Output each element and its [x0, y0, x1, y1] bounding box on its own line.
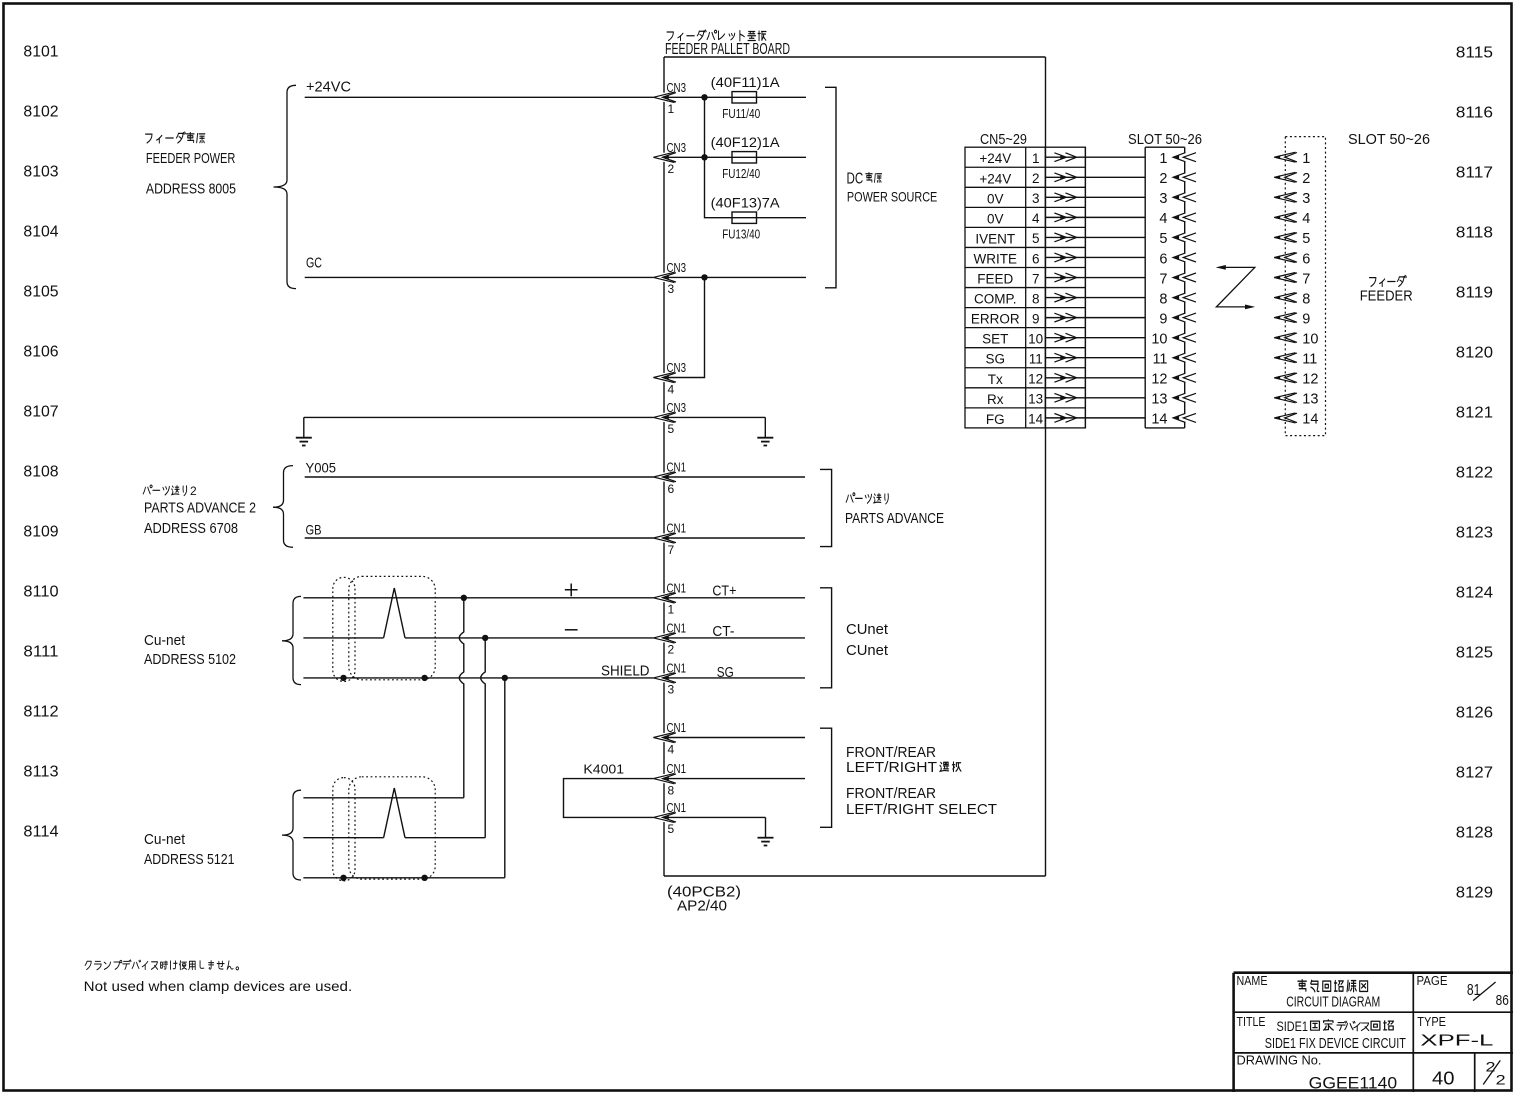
svg-text:ERROR: ERROR — [971, 312, 1020, 327]
svg-text:SLOT 50~26: SLOT 50~26 — [1348, 132, 1430, 148]
svg-text:8: 8 — [668, 783, 675, 797]
svg-text:FEEDER PALLET BOARD: FEEDER PALLET BOARD — [665, 41, 790, 58]
svg-text:ADDRESS 5102: ADDRESS 5102 — [144, 651, 236, 668]
wire CN1-5 right to ground — [664, 816, 766, 818]
svg-text:5: 5 — [1302, 231, 1310, 247]
svg-text:DRAWING No.: DRAWING No. — [1237, 1053, 1322, 1067]
svg-text:2: 2 — [1159, 171, 1167, 187]
connector SLOT feeder pin 3 — [1274, 191, 1310, 207]
connector CN1 pin 3 — [653, 660, 686, 696]
svg-text:CN3: CN3 — [667, 400, 687, 415]
connector SLOT feeder pin 14 — [1274, 412, 1318, 428]
connector CN5~29 pin 10 SET — [982, 331, 1043, 346]
wire CN3-1 to fuse FU11 — [664, 96, 806, 98]
connector SLOT feeder pin 8 — [1274, 291, 1310, 307]
svg-text:SIDE1 FIX DEVICE CIRCUIT: SIDE1 FIX DEVICE CIRCUIT — [1265, 1035, 1406, 1052]
svg-text:CUnet: CUnet — [846, 642, 889, 659]
svg-text:Cu-net: Cu-net — [144, 632, 186, 649]
svg-text:8105: 8105 — [23, 284, 58, 301]
connector CN1 pin 7 — [653, 521, 686, 557]
label + (CT+) — [565, 584, 578, 597]
wire CN5~29 pin 8 to SLOT — [1045, 297, 1145, 299]
svg-text:9: 9 — [1159, 311, 1167, 327]
label feeder power (JP) — [146, 134, 152, 143]
connector SLOT pin 1 — [1159, 151, 1196, 167]
svg-text:14: 14 — [1302, 412, 1318, 428]
twisted pair TP1 twist — [384, 588, 405, 638]
svg-text:8104: 8104 — [23, 224, 58, 241]
connector CN5~29 pin 13 Rx — [987, 392, 1043, 407]
svg-text:8119: 8119 — [1456, 285, 1493, 302]
svg-text:4: 4 — [1302, 211, 1310, 227]
connector CN1 pin 8 — [653, 761, 686, 797]
svg-text:CN5~29: CN5~29 — [980, 132, 1027, 148]
title block name (JP) — [1298, 980, 1306, 991]
wire CN3-2 to fuse FU12 — [664, 156, 806, 158]
svg-text:8103: 8103 — [23, 164, 58, 181]
svg-text:PARTS ADVANCE 2: PARTS ADVANCE 2 — [144, 501, 256, 517]
wire TP2 wire2 segment A — [303, 837, 383, 839]
svg-text:4: 4 — [1032, 211, 1040, 226]
wire CN1-4 right — [664, 737, 805, 739]
wire TP2 shield — [303, 877, 504, 879]
connector CN3 pin 3 — [653, 260, 686, 296]
svg-text:POWER SOURCE: POWER SOURCE — [847, 189, 937, 205]
svg-text:14: 14 — [1028, 412, 1044, 427]
svg-text:6: 6 — [1302, 251, 1310, 267]
node junction V1 top — [461, 595, 467, 601]
wire V2 vertical — [481, 638, 486, 838]
wire CN5~29 pin 3 to SLOT — [1045, 196, 1145, 198]
svg-text:6: 6 — [1159, 251, 1167, 267]
twisted pair TP2 cable outline — [349, 777, 435, 879]
svg-text:3: 3 — [668, 683, 675, 697]
svg-text:4: 4 — [668, 742, 675, 756]
connector CN5~29 pin 3 0V — [987, 191, 1039, 206]
svg-text:12: 12 — [1151, 372, 1167, 388]
svg-text:40: 40 — [1432, 1069, 1455, 1089]
svg-text:1: 1 — [668, 603, 675, 617]
svg-text:CN1: CN1 — [667, 580, 687, 595]
svg-text:TYPE: TYPE — [1417, 1015, 1446, 1029]
connector SLOT pin 2 — [1159, 171, 1196, 187]
wire CN5~29 pin 9 to SLOT — [1045, 317, 1145, 319]
connector CN3 pin 2 — [653, 140, 686, 176]
svg-text:8127: 8127 — [1456, 765, 1493, 782]
svg-text:NAME: NAME — [1237, 974, 1268, 988]
svg-text:+24VC: +24VC — [306, 78, 351, 95]
svg-text:2: 2 — [1486, 1058, 1496, 1074]
svg-text:2: 2 — [668, 643, 675, 657]
connector SLOT feeder pin 7 — [1274, 271, 1310, 287]
svg-text:FEED: FEED — [977, 272, 1013, 287]
wire CN5~29 pin 10 to SLOT — [1045, 337, 1145, 339]
svg-text:8118: 8118 — [1456, 225, 1493, 242]
svg-text:0V: 0V — [987, 211, 1004, 226]
svg-text:CN1: CN1 — [667, 660, 687, 675]
connector SLOT feeder pin 13 — [1274, 392, 1318, 408]
fuse FU12/40 — [732, 152, 757, 163]
wire GB to CN1-7 — [305, 537, 654, 539]
cable link arrow — [1216, 267, 1254, 307]
twisted pair TP1 cable outline — [349, 576, 435, 679]
svg-text:10: 10 — [1151, 331, 1167, 347]
connector SLOT pin 9 — [1159, 311, 1196, 327]
svg-text:11: 11 — [1152, 352, 1167, 368]
connector SLOT feeder pin 12 — [1274, 372, 1318, 388]
wire J2 to fuse FU13 branch — [705, 157, 807, 217]
wire CT- left segment B — [405, 637, 653, 639]
svg-text:5: 5 — [1159, 231, 1167, 247]
svg-text:1: 1 — [668, 102, 675, 116]
wire J3 to CN3-4 — [664, 277, 705, 377]
svg-text:8113: 8113 — [23, 764, 58, 781]
fuse FU11/40 — [732, 92, 757, 103]
svg-text:2: 2 — [1032, 171, 1040, 186]
connector SLOT pin 6 — [1159, 251, 1196, 267]
wire CN5~29 pin 6 to SLOT — [1045, 256, 1145, 258]
svg-text:FRONT/REAR: FRONT/REAR — [846, 745, 936, 761]
svg-text:Y005: Y005 — [306, 460, 337, 476]
svg-text:PARTS ADVANCE: PARTS ADVANCE — [845, 511, 944, 527]
connector CN5~29 pin 7 FEED — [977, 271, 1039, 286]
node TP2 shield dot B — [421, 875, 427, 881]
wire CN5~29 pin 13 to SLOT — [1045, 397, 1145, 399]
svg-text:+24V: +24V — [979, 171, 1011, 186]
svg-text:SHIELD: SHIELD — [601, 663, 650, 680]
svg-text:ADDRESS 5121: ADDRESS 5121 — [144, 851, 235, 868]
svg-text:1: 1 — [1032, 151, 1040, 166]
bracket front/rear select — [820, 728, 832, 827]
node TP2 shield dot A — [340, 875, 346, 881]
board AP2/40 outline — [664, 56, 1046, 58]
connector CN1 pin 1 — [653, 580, 686, 616]
connector SLOT pin 12 — [1151, 372, 1196, 388]
connector CN1 pin 4 — [653, 720, 686, 756]
connector SLOT pin 10 — [1151, 331, 1196, 347]
svg-text:14: 14 — [1151, 412, 1167, 428]
connector CN5~29 pin 5 IVENT — [975, 231, 1039, 246]
svg-text:8: 8 — [1302, 291, 1310, 307]
connector SLOT pin 11 — [1152, 352, 1196, 368]
connector CN5~29 number column line — [1044, 147, 1046, 428]
wire left ground to CN3-5 — [304, 416, 654, 418]
svg-text:5: 5 — [1032, 231, 1040, 246]
connector SLOT feeder pin 4 — [1274, 211, 1310, 227]
bracket CUnet — [820, 588, 832, 688]
wire V1 vertical — [459, 598, 464, 798]
connector SLOT feeder pin 11 — [1274, 352, 1317, 368]
svg-text:8112: 8112 — [23, 704, 58, 721]
node TP1 shield dot A — [340, 675, 346, 681]
wire CN5~29 pin 4 to SLOT — [1045, 216, 1145, 218]
svg-text:ADDRESS 6708: ADDRESS 6708 — [144, 521, 238, 537]
twisted pair TP1 shield pill — [333, 577, 355, 681]
wire CN5~29 pin 7 to SLOT — [1045, 277, 1145, 279]
svg-text:FEEDER: FEEDER — [1360, 287, 1413, 304]
node junction J1 — [701, 94, 707, 100]
wire CN1-2 right — [664, 637, 805, 639]
svg-text:FRONT/REAR: FRONT/REAR — [846, 786, 936, 802]
connector SLOT pin 14 — [1151, 412, 1196, 428]
svg-text:8122: 8122 — [1456, 465, 1493, 482]
svg-text:8101: 8101 — [23, 44, 58, 61]
svg-text:8102: 8102 — [23, 104, 58, 121]
svg-text:CN1: CN1 — [667, 800, 687, 815]
connector CN5~29 chevron column edge — [1084, 147, 1086, 428]
svg-text:CN3: CN3 — [667, 260, 687, 275]
svg-text:8111: 8111 — [23, 644, 58, 661]
svg-text:SG: SG — [986, 352, 1006, 367]
connector SLOT feeder pin 5 — [1274, 231, 1310, 247]
connector SLOT feeder pin 10 — [1274, 331, 1318, 347]
connector CN5~29 pin 14 FG — [986, 412, 1044, 427]
ground GND2 — [764, 417, 766, 437]
svg-text:8126: 8126 — [1456, 705, 1493, 722]
twisted pair TP2 shield pill — [333, 778, 355, 881]
ground GND3 — [765, 817, 767, 837]
label - (CT-) — [565, 629, 578, 631]
wire CN5~29 pin 14 to SLOT — [1045, 417, 1145, 419]
svg-text:13: 13 — [1151, 392, 1167, 408]
svg-text:9: 9 — [1302, 311, 1310, 327]
svg-text:FEEDER POWER: FEEDER POWER — [146, 150, 236, 167]
svg-text:7: 7 — [1302, 271, 1310, 287]
svg-text:8106: 8106 — [23, 344, 58, 361]
svg-text:4: 4 — [1159, 211, 1167, 227]
connector CN5~29 pin 6 WRITE — [974, 251, 1040, 266]
bracket parts advance — [820, 469, 832, 546]
wire J1 to J2 — [704, 97, 706, 157]
svg-text:ADDRESS 8005: ADDRESS 8005 — [146, 180, 236, 197]
wire CT+ left — [303, 597, 653, 599]
svg-text:13: 13 — [1302, 392, 1318, 408]
wire CN5~29 pin 11 to SLOT — [1045, 357, 1145, 359]
wire CN5~29 pin 5 to SLOT — [1045, 236, 1145, 238]
svg-text:8116: 8116 — [1456, 105, 1493, 122]
svg-text:DC: DC — [847, 171, 864, 188]
svg-text:Cu-net: Cu-net — [144, 831, 186, 848]
connector SLOT feeder dashed box — [1285, 137, 1325, 436]
svg-text:8123: 8123 — [1456, 525, 1493, 542]
svg-text:SIDE1: SIDE1 — [1277, 1019, 1309, 1034]
node TP1 shield dot B — [421, 675, 427, 681]
svg-text:3: 3 — [1302, 191, 1310, 207]
wire Y005 to CN1-6 — [305, 476, 654, 478]
svg-text:8125: 8125 — [1456, 645, 1493, 662]
svg-text:8108: 8108 — [23, 464, 58, 481]
svg-text:9: 9 — [1032, 311, 1040, 326]
svg-text:8121: 8121 — [1456, 405, 1493, 422]
brace cu-net 5121 group — [282, 790, 301, 880]
connector CN3 pin 4 — [653, 360, 686, 396]
svg-text:GGEE1140: GGEE1140 — [1309, 1073, 1397, 1092]
svg-text:CN1: CN1 — [667, 620, 687, 635]
svg-text:7: 7 — [668, 543, 675, 557]
svg-text:3: 3 — [668, 282, 675, 296]
svg-text:8: 8 — [1159, 291, 1167, 307]
svg-text:AP2/40: AP2/40 — [677, 898, 727, 915]
connector CN5~29 pin 9 ERROR — [971, 311, 1040, 326]
svg-text:SET: SET — [982, 332, 1008, 347]
connector CN5~29 pin 11 SG — [986, 352, 1043, 367]
svg-text:6: 6 — [1032, 251, 1040, 266]
svg-text:CN3: CN3 — [667, 80, 687, 95]
board label feeder pallet board (JP) — [667, 32, 673, 41]
svg-text:6: 6 — [668, 482, 675, 496]
svg-text:8129: 8129 — [1456, 885, 1493, 902]
svg-text:Tx: Tx — [988, 372, 1003, 387]
connector SLOT pin 8 — [1159, 291, 1196, 307]
svg-text:K4001: K4001 — [583, 762, 624, 776]
label parts advance (JP) — [846, 493, 855, 502]
wire V3 vertical — [504, 678, 506, 878]
svg-text:SLOT 50~26: SLOT 50~26 — [1128, 132, 1202, 148]
svg-text:COMP.: COMP. — [974, 292, 1017, 307]
wire CT- left segment A — [303, 637, 383, 639]
connector SLOT 50~26 box — [1145, 146, 1185, 148]
svg-text:5: 5 — [668, 822, 675, 836]
svg-text:LEFT/RIGHT SELECT: LEFT/RIGHT SELECT — [846, 802, 997, 818]
svg-text:2: 2 — [1302, 171, 1310, 187]
svg-text:WRITE: WRITE — [974, 251, 1018, 266]
svg-text:IVENT: IVENT — [975, 231, 1015, 246]
svg-text:8120: 8120 — [1456, 345, 1493, 362]
wire SHIELD left — [303, 677, 653, 679]
svg-text:13: 13 — [1028, 392, 1043, 407]
svg-text:1: 1 — [1159, 151, 1167, 167]
svg-text:XPF-L: XPF-L — [1420, 1033, 1493, 1050]
svg-text:12: 12 — [1028, 372, 1043, 387]
label parts advance 2 (JP) — [143, 485, 152, 494]
wire K4001 loop — [564, 779, 654, 818]
connector SLOT pin 5 — [1159, 231, 1196, 247]
connector CN1 pin 2 — [653, 620, 686, 656]
wire TP2 wire1 — [303, 797, 463, 799]
svg-text:TITLE: TITLE — [1237, 1015, 1266, 1029]
connector CN3 pin 1 — [653, 80, 686, 116]
wire CN3-5 right — [664, 416, 765, 418]
wire CN1-8 right — [664, 778, 805, 780]
svg-text:(40F11)1A: (40F11)1A — [711, 75, 780, 90]
svg-text:Rx: Rx — [987, 392, 1004, 407]
svg-text:CN3: CN3 — [667, 140, 687, 155]
connector CN5~29 pin 12 Tx — [988, 372, 1043, 387]
svg-text:11: 11 — [1029, 352, 1043, 367]
wire CN1-1 right — [664, 597, 805, 599]
svg-text:PAGE: PAGE — [1417, 974, 1448, 988]
title block frame — [1234, 971, 1513, 974]
connector CN5~29 pin 2 +24V — [979, 171, 1039, 186]
svg-text:+24V: +24V — [979, 151, 1011, 166]
svg-text:FU12/40: FU12/40 — [722, 166, 760, 181]
svg-text:2: 2 — [668, 162, 675, 176]
svg-text:5: 5 — [668, 422, 675, 436]
wire CN1-6 right — [664, 476, 805, 478]
connector SLOT feeder pin 2 — [1274, 171, 1310, 187]
connector SLOT feeder pin 1 — [1274, 151, 1310, 167]
wire GC to CN3-3 — [305, 276, 654, 278]
svg-text:12: 12 — [1302, 372, 1318, 388]
ground GND1 — [303, 417, 305, 437]
svg-text:86: 86 — [1496, 992, 1509, 1009]
svg-text:8109: 8109 — [23, 524, 58, 541]
node junction V3 top — [502, 675, 508, 681]
svg-text:FU11/40: FU11/40 — [722, 106, 760, 121]
svg-text:8110: 8110 — [23, 584, 58, 601]
svg-text:4: 4 — [668, 382, 675, 396]
bracket DC power source — [825, 87, 836, 287]
svg-text:2: 2 — [190, 484, 197, 498]
svg-text:8114: 8114 — [23, 824, 58, 841]
connector CN1 pin 5 — [653, 800, 686, 836]
connector SLOT pin 13 — [1151, 392, 1196, 408]
svg-text:CUnet: CUnet — [846, 621, 889, 638]
connector SLOT pin 4 — [1159, 211, 1196, 227]
wire CN3-3 right — [664, 276, 806, 278]
node junction J3 — [701, 274, 707, 280]
svg-text:3: 3 — [1032, 191, 1040, 206]
svg-text:10: 10 — [1302, 331, 1318, 347]
connector CN5~29 pin 8 COMP. — [974, 291, 1039, 306]
connector SLOT feeder pin 6 — [1274, 251, 1310, 267]
connector CN5~29 table grid — [965, 147, 1085, 428]
connector CN1 pin 6 — [653, 460, 686, 496]
svg-text:GB: GB — [306, 522, 322, 538]
node junction J2 — [701, 154, 707, 160]
svg-text:8117: 8117 — [1456, 165, 1493, 182]
connector CN5~29 pin 1 +24V — [979, 151, 1039, 166]
wire CN1-7 right — [664, 537, 805, 539]
svg-text:(40F12)1A: (40F12)1A — [711, 135, 780, 150]
svg-text:LEFT/RIGHT: LEFT/RIGHT — [846, 760, 937, 776]
svg-text:CN1: CN1 — [667, 521, 687, 536]
note clamp devices (JP) — [85, 961, 91, 969]
svg-text:0V: 0V — [987, 191, 1004, 206]
connector SLOT pin 7 — [1159, 271, 1196, 287]
svg-text:CN1: CN1 — [667, 720, 687, 735]
svg-text:CIRCUIT DIAGRAM: CIRCUIT DIAGRAM — [1286, 993, 1380, 1010]
svg-text:CN1: CN1 — [667, 761, 687, 776]
svg-text:3: 3 — [1159, 191, 1167, 207]
svg-text:CN3: CN3 — [667, 360, 687, 375]
svg-text:CN1: CN1 — [667, 460, 687, 475]
connector SLOT feeder pin 9 — [1274, 311, 1310, 327]
wire CN5~29 pin 1 to SLOT — [1045, 156, 1145, 158]
svg-text:8115: 8115 — [1456, 45, 1493, 62]
svg-text:2: 2 — [1496, 1072, 1506, 1088]
brace parts advance 2 group — [273, 466, 293, 548]
svg-text:7: 7 — [1032, 271, 1040, 286]
svg-text:8107: 8107 — [23, 404, 58, 421]
connector CN3 pin 5 — [653, 400, 686, 436]
svg-text:GC: GC — [306, 254, 322, 271]
wire CN1-3 right — [664, 677, 805, 679]
svg-text:1: 1 — [1302, 151, 1310, 167]
wire +24VC to CN3-1 — [305, 96, 654, 98]
svg-text:FU13/40: FU13/40 — [722, 227, 760, 242]
wire CN5~29 pin 12 to SLOT — [1045, 377, 1145, 379]
connector SLOT pin 3 — [1159, 191, 1196, 207]
twisted pair TP2 twist — [384, 788, 405, 838]
svg-text:8: 8 — [1032, 291, 1040, 306]
node junction V2 top — [482, 635, 488, 641]
svg-text:(40F13)7A: (40F13)7A — [711, 196, 780, 211]
svg-text:8128: 8128 — [1456, 825, 1493, 842]
connector CN5~29 pin 4 0V — [987, 211, 1040, 226]
wire CN5~29 pin 2 to SLOT — [1045, 176, 1145, 178]
label feeder (JP) — [1369, 278, 1375, 287]
